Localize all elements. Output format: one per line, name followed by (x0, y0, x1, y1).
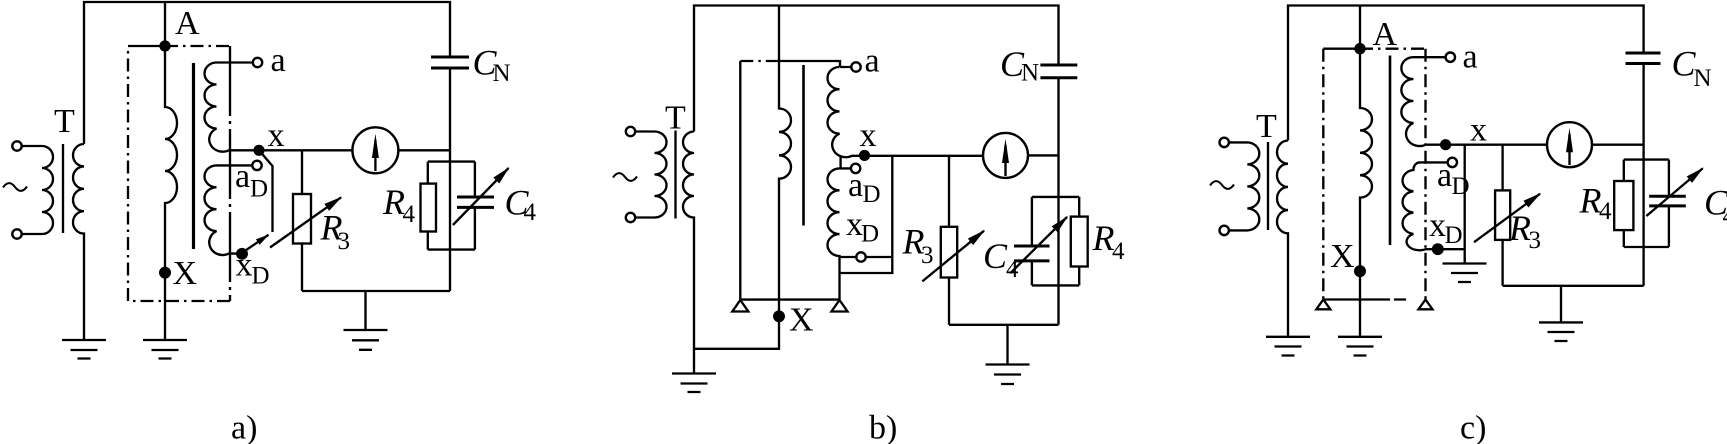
svg-text:a: a (235, 158, 250, 195)
svg-text:N: N (1021, 60, 1039, 87)
svg-text:C: C (983, 236, 1008, 276)
svg-text:a: a (865, 43, 880, 80)
svg-text:D: D (861, 221, 879, 248)
svg-text:X: X (1330, 238, 1355, 275)
svg-text:T: T (54, 103, 75, 140)
svg-text:N: N (493, 60, 511, 87)
svg-text:T: T (1256, 108, 1277, 145)
svg-text:3: 3 (1529, 227, 1542, 254)
svg-text:T: T (665, 100, 686, 137)
svg-text:4: 4 (1112, 238, 1125, 265)
svg-text:D: D (252, 263, 270, 290)
svg-text:X: X (173, 255, 198, 292)
svg-text:4: 4 (524, 199, 537, 226)
svg-text:x: x (1429, 207, 1446, 244)
svg-text:D: D (1452, 173, 1470, 200)
svg-text:D: D (250, 176, 268, 203)
svg-text:a: a (848, 167, 863, 204)
svg-text:3: 3 (921, 242, 934, 269)
svg-text:D: D (1445, 222, 1463, 249)
svg-text:D: D (863, 181, 881, 208)
svg-text:b): b) (869, 410, 897, 444)
svg-text:X: X (789, 302, 814, 339)
svg-text:A: A (1373, 16, 1398, 53)
svg-text:A: A (175, 5, 200, 42)
svg-text:4: 4 (403, 201, 416, 228)
svg-text:a): a) (231, 410, 257, 444)
svg-text:4: 4 (1599, 198, 1612, 225)
svg-text:N: N (1694, 65, 1712, 92)
svg-text:x: x (268, 117, 285, 154)
svg-text:x: x (236, 246, 253, 283)
svg-text:a: a (1463, 39, 1478, 76)
svg-text:4: 4 (1723, 203, 1727, 230)
svg-text:3: 3 (338, 228, 351, 255)
svg-text:4: 4 (1006, 256, 1019, 283)
svg-text:c): c) (1460, 410, 1486, 444)
svg-text:a: a (271, 42, 286, 79)
svg-text:x: x (860, 117, 877, 154)
svg-text:x: x (1470, 112, 1487, 149)
svg-text:a: a (1437, 157, 1452, 194)
